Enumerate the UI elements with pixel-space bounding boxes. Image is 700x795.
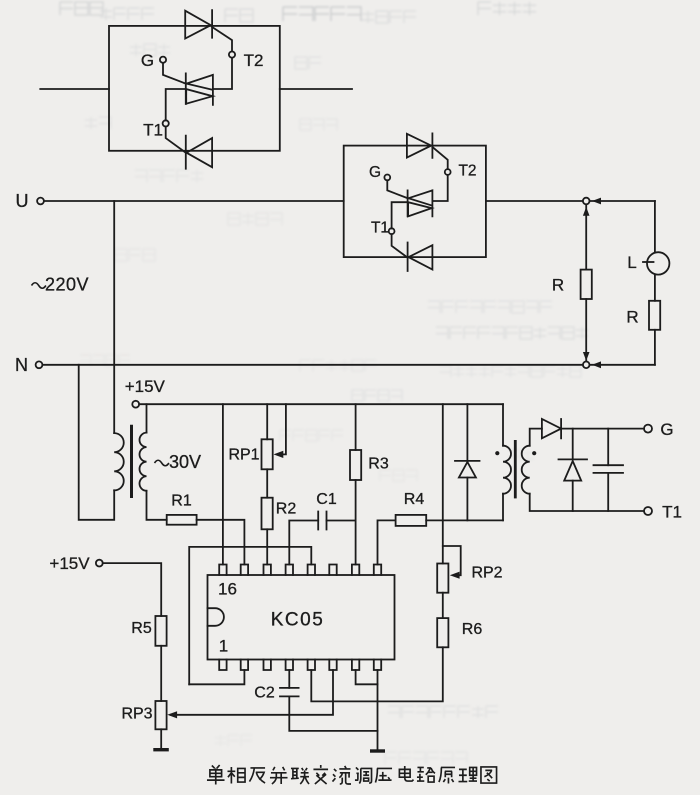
svg-text:T1: T1	[143, 121, 163, 140]
wire pin12 branch	[189, 547, 311, 684]
arrow down to node B on load branch	[583, 352, 590, 361]
wire secondary bottom to R1	[147, 491, 167, 520]
svg-text:T1: T1	[371, 220, 389, 237]
thyristor V4 bottom of M2	[408, 243, 433, 272]
caption 单相反并联交流调压电路原理图	[207, 765, 497, 785]
arrow RP3 wiper	[167, 711, 177, 718]
svg-text:C1: C1	[316, 491, 337, 508]
wire rail to RP1	[266, 404, 268, 439]
triac pair symbol M2	[408, 190, 433, 216]
wire T2 to triac M1	[213, 58, 232, 89]
terminal T2 of M1	[229, 52, 235, 58]
wire rail to R3	[355, 404, 357, 450]
wire secondary top to rail	[146, 404, 148, 432]
svg-text:R: R	[552, 276, 564, 295]
wire pin4 to C2	[288, 670, 290, 688]
resistor R right branch	[649, 301, 660, 330]
wire R6 to pin5	[311, 647, 443, 701]
svg-text:R6: R6	[462, 621, 483, 638]
wire R4 right along bottom of rectifier box	[426, 519, 503, 521]
wire RP3 to ground	[160, 729, 162, 748]
transformer T1 secondary	[139, 433, 146, 491]
diode VD1 rectifier	[455, 461, 480, 478]
IC pin stubs top row pins 16 to 9	[219, 565, 381, 576]
wire load branch upper	[585, 205, 587, 270]
wire rail to pin16	[222, 404, 224, 564]
wire R1 to pin15	[197, 520, 245, 565]
wire V1 cathode to T2	[212, 27, 232, 51]
wire U line	[44, 200, 655, 202]
inductor L single-loop	[643, 252, 669, 274]
terminal +15V upper	[132, 401, 139, 408]
svg-text:220V: 220V	[45, 275, 89, 295]
svg-text:U: U	[16, 191, 29, 211]
bleed-through artifacts (decorative)	[60, 2, 103, 15]
wire R3 to pin10	[355, 480, 357, 565]
wire gate M2	[387, 180, 407, 198]
svg-text:T2: T2	[458, 163, 476, 180]
svg-text:RP1: RP1	[228, 447, 259, 464]
ground bar main	[370, 749, 385, 752]
wire R4 left to pin9	[378, 520, 396, 564]
transformer T1 primary	[114, 433, 124, 490]
wire rail to VD1 to bottom	[466, 404, 468, 520]
svg-text:L: L	[627, 253, 636, 272]
diode VD3 freewheel	[559, 459, 588, 480]
svg-text:N: N	[15, 355, 28, 375]
terminal T1 output	[644, 507, 652, 515]
svg-text:+15V: +15V	[49, 554, 90, 573]
resistor R load	[581, 270, 592, 299]
wire C2 bottom to ground line	[289, 696, 377, 731]
wire R5 to RP3	[160, 646, 162, 701]
arrow RP1 wiper	[274, 451, 284, 458]
potentiometer RP3	[155, 701, 166, 729]
wire T1 to triac M2	[392, 202, 408, 228]
IC pin stubs bottom row pins 1 to 8	[219, 660, 381, 671]
svg-text:R5: R5	[131, 620, 152, 637]
capacitor C2	[280, 688, 299, 697]
arrow into node B	[592, 361, 601, 368]
arrow RP2 wiper	[450, 572, 460, 579]
pulse transformer T2 primary	[503, 446, 511, 494]
wire below L	[654, 275, 656, 301]
wire C1 right to R3 line	[327, 520, 356, 522]
wire RP2 to R6	[442, 593, 444, 618]
module box M2 (in-circuit thyristor module)	[344, 146, 486, 258]
wire T1 to bottom thyristor M1	[166, 127, 186, 153]
polarity dot T2 primary	[495, 451, 499, 455]
resistor R3	[350, 450, 361, 480]
svg-text:G: G	[141, 51, 154, 70]
module box M1 (enlarged thyristor module)	[109, 26, 280, 151]
capacitor C1	[318, 512, 326, 530]
resistor R4	[396, 515, 427, 526]
arrow into node A	[592, 198, 601, 205]
terminal +15V lower	[96, 560, 103, 567]
wire N line	[43, 364, 655, 366]
svg-text:R1: R1	[171, 493, 192, 510]
IC U1 notch	[208, 608, 224, 626]
potentiometer RP2	[437, 564, 448, 593]
thyristor V2 bottom of M1	[186, 136, 212, 169]
wire pin2 to left loop	[189, 670, 244, 684]
wire RP1 to R2	[266, 469, 268, 497]
thyristor V3 top of M2	[407, 133, 433, 158]
wire pin8 to ground	[377, 670, 379, 749]
resistor R5	[155, 616, 166, 646]
svg-text:R4: R4	[404, 491, 425, 508]
wire N drop to transformer primary bottom	[79, 365, 115, 520]
arrow up to node A on load branch	[583, 207, 590, 216]
wire gate M1	[163, 63, 186, 84]
wire +15V rail	[139, 403, 503, 405]
wire right branch down from U line	[654, 201, 656, 252]
svg-text:T2: T2	[244, 51, 264, 70]
wire VD2 to terminal G	[561, 428, 644, 430]
node B	[583, 362, 590, 369]
svg-text:+15V: +15V	[125, 377, 166, 396]
svg-text:C2: C2	[254, 685, 275, 702]
terminal T1 of M1	[163, 120, 169, 126]
ground bar left	[153, 748, 169, 751]
wire M1 right stub	[280, 88, 352, 90]
wire T1 to triac M1	[166, 89, 186, 120]
wire U drop to transformer primary	[113, 201, 115, 433]
svg-text:T1: T1	[662, 503, 682, 522]
resistor R6	[437, 618, 448, 647]
svg-text:G: G	[369, 164, 381, 181]
wire RP2 wiper loop	[443, 546, 461, 575]
wire V3 cathode to T2	[432, 147, 447, 169]
svg-text:30V: 30V	[169, 452, 201, 472]
terminal G of M1	[160, 57, 166, 63]
svg-text:KC05: KC05	[271, 610, 325, 631]
wire load branch lower	[585, 299, 587, 361]
potentiometer RP1	[262, 439, 273, 469]
polarity dot T2 secondary	[532, 451, 536, 455]
wire pin6 to RP3 wiper	[171, 670, 333, 715]
wire T1 to bottom thyristor M2	[392, 234, 407, 257]
wire rail to T2 primary	[502, 404, 504, 520]
IC U1 KC05 body	[208, 575, 395, 660]
wire +15V to R5	[103, 563, 161, 616]
svg-text:RP2: RP2	[471, 565, 502, 582]
diode VD2 series to G	[542, 419, 561, 438]
svg-text:RP3: RP3	[121, 706, 152, 723]
pulse transformer T2 core	[514, 441, 517, 497]
svg-text:R: R	[626, 308, 638, 327]
pulse transformer T2 secondary	[522, 446, 530, 494]
wire secondary top to diode	[530, 429, 542, 446]
wire T2 to triac M2	[432, 175, 447, 201]
resistor R2	[262, 498, 273, 530]
resistor R1	[167, 515, 197, 525]
wire RP1 wiper from rail	[282, 404, 286, 454]
triac pair symbol M1	[186, 73, 213, 104]
wire secondary bottom to T1	[530, 494, 644, 511]
capacitor C3 output	[594, 465, 624, 473]
wire R2 to pin14	[266, 529, 268, 564]
terminal T2 of M2	[445, 169, 451, 175]
thyristor V1 top of M1	[185, 10, 212, 38]
terminal N	[36, 361, 43, 368]
terminal U	[37, 198, 44, 205]
wire VD3 vertical	[572, 429, 574, 511]
svg-text:R3: R3	[368, 456, 389, 473]
wire C3 vertical	[607, 429, 609, 511]
wire C1 left to pin13	[289, 521, 318, 565]
svg-text:1: 1	[219, 637, 228, 656]
wire M1 left stub	[40, 88, 109, 90]
wire pin7 to pin8 line	[356, 670, 378, 684]
terminal G of M2	[384, 175, 390, 181]
svg-text:16: 16	[218, 580, 237, 599]
svg-text:G: G	[660, 420, 673, 439]
wire rail down to RP2 chain	[442, 404, 444, 563]
terminal T1 of M2	[389, 228, 395, 234]
terminal G output	[644, 425, 652, 433]
node A	[583, 198, 590, 205]
wire right branch to N line	[654, 330, 656, 365]
svg-text:R2: R2	[276, 501, 297, 518]
transformer T1 core	[130, 426, 133, 496]
